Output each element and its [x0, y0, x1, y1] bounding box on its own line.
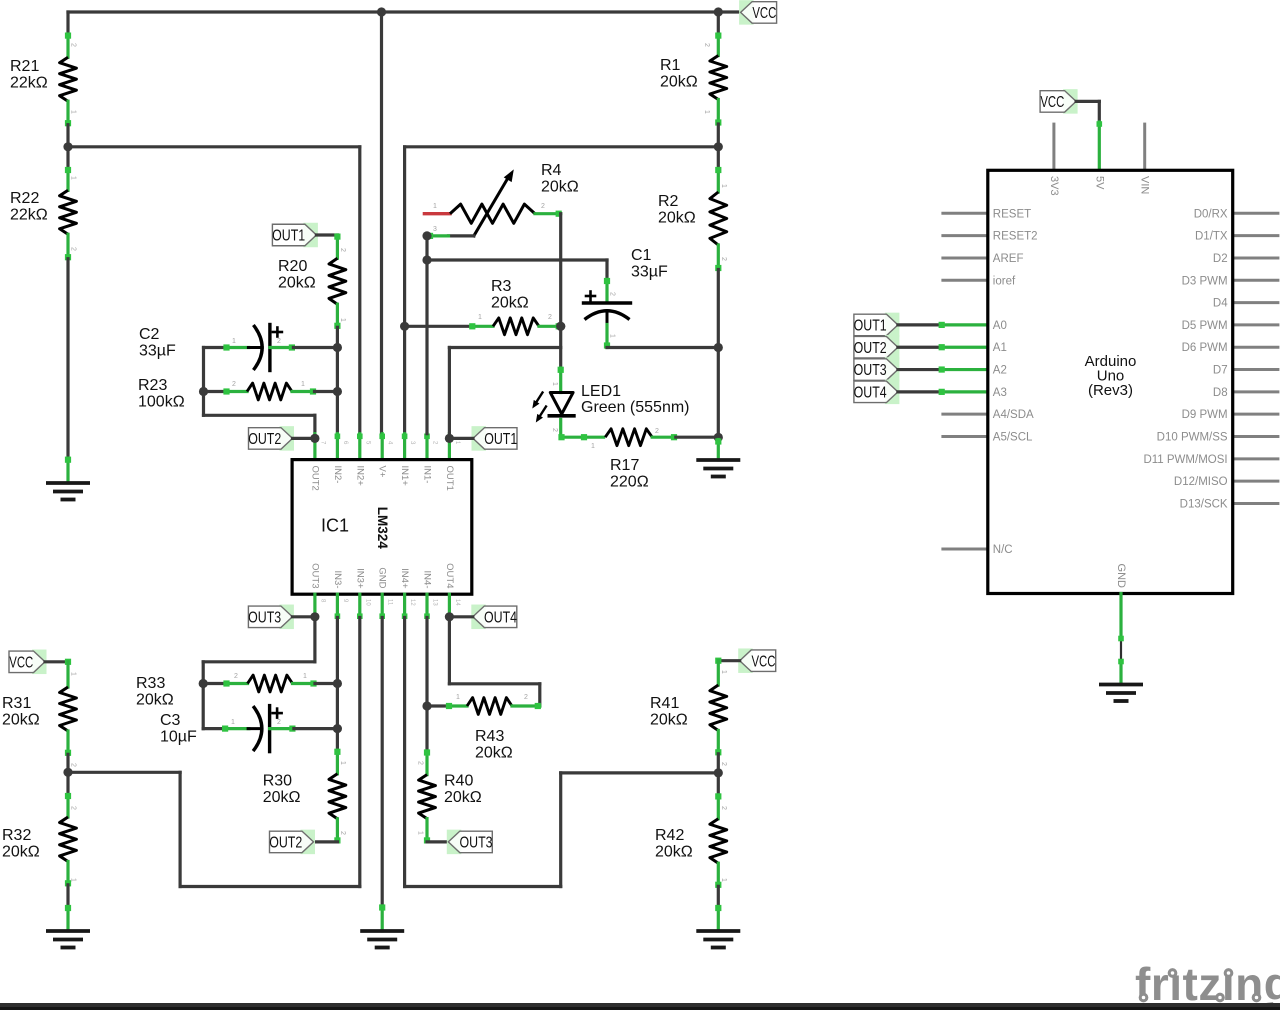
svg-text:2: 2: [720, 806, 727, 810]
svg-text:1: 1: [70, 110, 77, 114]
svg-text:R43: R43: [475, 728, 504, 745]
svg-text:2: 2: [609, 292, 616, 296]
svg-text:1: 1: [70, 176, 77, 180]
svg-text:OUT1: OUT1: [272, 228, 305, 245]
svg-text:2: 2: [277, 338, 281, 345]
svg-text:1: 1: [231, 719, 235, 726]
svg-text:R32: R32: [2, 827, 31, 844]
svg-text:20kΩ: 20kΩ: [491, 295, 529, 312]
svg-text:VIN: VIN: [1139, 176, 1151, 194]
svg-text:IN1-: IN1-: [422, 466, 433, 484]
svg-text:1: 1: [591, 443, 595, 450]
svg-text:1: 1: [551, 382, 558, 386]
svg-text:1: 1: [720, 878, 727, 882]
svg-text:2: 2: [70, 247, 77, 251]
svg-text:R4: R4: [541, 162, 562, 179]
svg-text:VCC: VCC: [751, 653, 775, 670]
svg-text:R22: R22: [10, 190, 39, 207]
svg-text:1: 1: [417, 831, 424, 835]
svg-text:OUT3: OUT3: [460, 835, 493, 852]
svg-text:OUT1: OUT1: [854, 318, 887, 335]
svg-text:20kΩ: 20kΩ: [475, 745, 513, 762]
svg-text:OUT2: OUT2: [248, 431, 281, 448]
svg-text:2: 2: [541, 203, 545, 210]
svg-text:2: 2: [70, 763, 77, 767]
svg-text:R2: R2: [658, 193, 679, 210]
svg-text:OUT1: OUT1: [444, 466, 455, 491]
svg-text:R33: R33: [136, 675, 165, 692]
svg-text:IN4-: IN4-: [422, 571, 433, 589]
svg-text:13: 13: [432, 599, 438, 606]
svg-text:20kΩ: 20kΩ: [278, 275, 316, 292]
svg-text:OUT4: OUT4: [484, 609, 517, 626]
svg-text:2: 2: [655, 428, 659, 435]
svg-text:1: 1: [478, 314, 482, 321]
svg-text:LED1: LED1: [581, 383, 621, 400]
svg-text:33µF: 33µF: [631, 264, 668, 281]
svg-text:20kΩ: 20kΩ: [263, 789, 301, 806]
svg-text:14: 14: [454, 599, 460, 606]
svg-text:1: 1: [720, 184, 727, 188]
svg-text:R31: R31: [2, 695, 31, 712]
svg-text:1: 1: [339, 761, 346, 765]
svg-text:R40: R40: [444, 773, 473, 790]
svg-text:A1: A1: [993, 342, 1007, 354]
svg-text:R3: R3: [491, 278, 512, 295]
svg-text:20kΩ: 20kΩ: [136, 692, 174, 709]
svg-text:22kΩ: 22kΩ: [10, 75, 48, 92]
svg-text:2: 2: [70, 806, 77, 810]
svg-text:20kΩ: 20kΩ: [444, 789, 482, 806]
svg-text:20kΩ: 20kΩ: [655, 844, 693, 861]
svg-text:3: 3: [433, 226, 437, 233]
svg-text:2: 2: [548, 314, 552, 321]
svg-text:10: 10: [364, 599, 370, 606]
svg-text:2: 2: [703, 43, 710, 47]
svg-text:A4/SDA: A4/SDA: [993, 409, 1034, 421]
svg-text:D3 PWM: D3 PWM: [1182, 275, 1228, 287]
svg-text:20kΩ: 20kΩ: [2, 844, 40, 861]
svg-text:R17: R17: [610, 457, 639, 474]
svg-text:VCC: VCC: [1040, 94, 1064, 111]
svg-text:IN4+: IN4+: [399, 568, 410, 589]
svg-text:2: 2: [524, 694, 528, 701]
svg-text:A2: A2: [993, 365, 1007, 377]
svg-text:2: 2: [417, 761, 424, 765]
svg-text:OUT4: OUT4: [854, 384, 887, 401]
svg-text:D11 PWM/MOSI: D11 PWM/MOSI: [1143, 454, 1227, 466]
svg-text:IC1: IC1: [321, 516, 349, 536]
svg-text:2: 2: [720, 762, 727, 766]
svg-text:R42: R42: [655, 827, 684, 844]
svg-text:Green (555nm): Green (555nm): [581, 399, 690, 416]
svg-text:1: 1: [609, 334, 616, 338]
svg-text:20kΩ: 20kΩ: [541, 179, 579, 196]
svg-text:100kΩ: 100kΩ: [138, 394, 185, 411]
svg-text:D13/SCK: D13/SCK: [1180, 498, 1228, 510]
svg-text:frıtzıng: frıtzıng: [1135, 958, 1280, 1010]
svg-text:11: 11: [387, 599, 393, 606]
svg-text:5V: 5V: [1093, 176, 1105, 190]
svg-text:220Ω: 220Ω: [610, 474, 649, 491]
svg-text:V+: V+: [377, 466, 388, 478]
svg-text:D0/RX: D0/RX: [1194, 208, 1228, 220]
svg-text:IN2-: IN2-: [332, 466, 343, 484]
svg-text:A3: A3: [993, 387, 1007, 399]
svg-text:20kΩ: 20kΩ: [2, 712, 40, 729]
svg-text:D5 PWM: D5 PWM: [1182, 320, 1228, 332]
svg-text:2: 2: [234, 673, 238, 680]
svg-text:IN3-: IN3-: [332, 571, 343, 589]
svg-text:OUT4: OUT4: [444, 563, 455, 588]
svg-text:1: 1: [456, 694, 460, 701]
svg-text:OUT1: OUT1: [484, 431, 517, 448]
svg-text:C3: C3: [160, 712, 181, 729]
svg-text:VCC: VCC: [752, 5, 776, 22]
svg-text:1: 1: [232, 338, 236, 345]
svg-text:D8: D8: [1213, 387, 1228, 399]
svg-text:2: 2: [551, 428, 558, 432]
svg-text:1: 1: [301, 381, 305, 388]
svg-text:RESET2: RESET2: [993, 231, 1038, 243]
svg-text:1: 1: [70, 878, 77, 882]
svg-text:OUT2: OUT2: [309, 466, 320, 491]
svg-text:GND: GND: [377, 567, 388, 588]
svg-text:33µF: 33µF: [139, 343, 176, 360]
svg-text:2: 2: [232, 381, 236, 388]
svg-text:D10 PWM/SS: D10 PWM/SS: [1157, 432, 1228, 444]
svg-text:D2: D2: [1213, 253, 1228, 265]
svg-text:R1: R1: [660, 57, 681, 74]
svg-text:2: 2: [277, 719, 281, 726]
svg-text:D1/TX: D1/TX: [1195, 231, 1228, 243]
svg-text:3V3: 3V3: [1048, 176, 1060, 196]
svg-text:OUT2: OUT2: [269, 835, 302, 852]
svg-text:20kΩ: 20kΩ: [650, 712, 688, 729]
svg-text:VCC: VCC: [9, 654, 33, 671]
svg-text:D12/MISO: D12/MISO: [1174, 476, 1228, 488]
svg-text:1: 1: [339, 318, 346, 322]
svg-text:C2: C2: [139, 326, 160, 343]
svg-text:AREF: AREF: [993, 253, 1024, 265]
svg-text:D6 PWM: D6 PWM: [1182, 342, 1228, 354]
svg-text:R20: R20: [278, 258, 307, 275]
svg-text:D4: D4: [1213, 298, 1228, 310]
svg-text:12: 12: [409, 599, 415, 606]
svg-text:OUT3: OUT3: [309, 563, 320, 588]
svg-text:A5/SCL: A5/SCL: [993, 432, 1033, 444]
svg-text:R41: R41: [650, 695, 679, 712]
svg-text:1: 1: [703, 110, 710, 114]
svg-text:N/C: N/C: [993, 544, 1013, 556]
svg-text:2: 2: [70, 43, 77, 47]
svg-text:RESET: RESET: [993, 208, 1031, 220]
svg-text:GND: GND: [1115, 564, 1127, 589]
svg-text:2: 2: [339, 248, 346, 252]
svg-text:1: 1: [720, 670, 727, 674]
svg-text:D9 PWM: D9 PWM: [1182, 409, 1228, 421]
svg-text:A0: A0: [993, 320, 1007, 332]
svg-text:ioref: ioref: [993, 275, 1016, 287]
svg-text:2: 2: [720, 257, 727, 261]
svg-text:2: 2: [339, 831, 346, 835]
svg-text:OUT2: OUT2: [854, 340, 887, 357]
svg-text:OUT3: OUT3: [248, 609, 281, 626]
svg-text:LM324: LM324: [375, 507, 390, 550]
svg-text:IN1+: IN1+: [399, 466, 410, 487]
svg-text:1: 1: [303, 673, 307, 680]
svg-text:20kΩ: 20kΩ: [660, 74, 698, 91]
svg-text:OUT3: OUT3: [854, 362, 887, 379]
svg-text:1: 1: [70, 672, 77, 676]
svg-text:IN3+: IN3+: [354, 568, 365, 589]
svg-text:R30: R30: [263, 773, 292, 790]
svg-text:D7: D7: [1213, 365, 1228, 377]
svg-text:20kΩ: 20kΩ: [658, 210, 696, 227]
svg-text:(Rev3): (Rev3): [1088, 382, 1133, 399]
svg-text:22kΩ: 22kΩ: [10, 207, 48, 224]
svg-text:C1: C1: [631, 247, 652, 264]
svg-text:10µF: 10µF: [160, 729, 197, 746]
svg-text:R23: R23: [138, 377, 167, 394]
svg-text:IN2+: IN2+: [354, 466, 365, 487]
svg-text:1: 1: [433, 203, 437, 210]
svg-text:R21: R21: [10, 58, 39, 75]
